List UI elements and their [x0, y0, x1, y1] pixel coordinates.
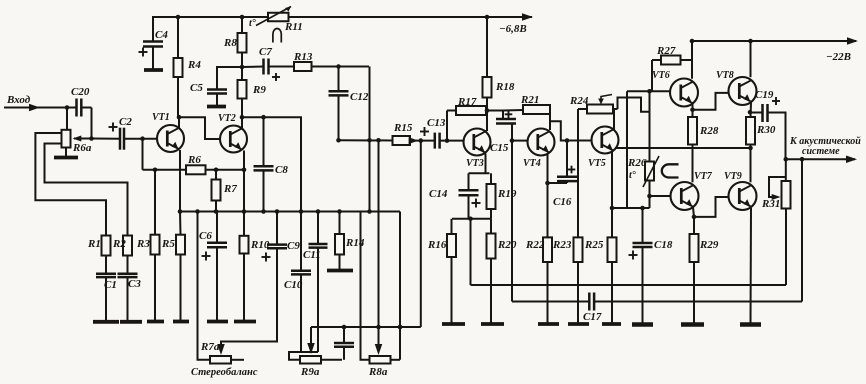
svg-text:VT8: VT8 [716, 70, 734, 81]
wire riser R13-bus [369, 67, 371, 212]
wire R21 right VT4 collector riser [549, 110, 551, 130]
wire L1 long feedback [471, 284, 787, 286]
resistor R20 [487, 234, 496, 259]
transistor VT2 [220, 126, 247, 153]
capacitor C5 [207, 88, 227, 91]
capacitor small between R9a R8a [343, 327, 345, 343]
resistor R14 [335, 234, 344, 255]
svg-text:R8а: R8а [368, 366, 388, 378]
wire VT3 emitter down [485, 154, 487, 174]
wire C19 right corner down to output node [767, 113, 785, 160]
ground under R5 [173, 320, 189, 324]
wire input line with arrow [4, 107, 67, 109]
wire base line y170 [143, 169, 187, 171]
resistor R30 [746, 117, 755, 145]
svg-text:R22: R22 [525, 239, 545, 251]
wire feedback line [311, 326, 421, 328]
wire R7a right stub [231, 359, 244, 361]
wire R22 bottom [547, 262, 549, 324]
capacitor C12 [338, 67, 340, 92]
wire VT2 emitter down [243, 151, 245, 212]
wire R3 riser [154, 170, 156, 235]
wire L2 riser from output line [801, 159, 803, 301]
ground under C6 [207, 320, 228, 324]
svg-text:R31: R31 [761, 198, 780, 210]
svg-text:С7: С7 [259, 46, 272, 58]
svg-text:VT4: VT4 [523, 158, 541, 169]
ground bar under R14 [327, 269, 353, 273]
capacitor C2 [119, 128, 122, 150]
svg-text:VT9: VT9 [724, 171, 742, 182]
resistor R9 [238, 80, 247, 99]
potentiometer R6a [62, 130, 71, 148]
capacitor C8 [263, 117, 265, 166]
svg-text:R21: R21 [520, 94, 539, 106]
svg-text:R11: R11 [284, 21, 303, 33]
svg-text:R7а: R7а [200, 341, 220, 353]
wire wiper to C2 [92, 138, 121, 140]
ground under C18 thick [632, 322, 653, 327]
wire bus to R10 [243, 212, 245, 236]
wire rail -6.8V [152, 16, 532, 18]
resistor R4 [174, 58, 183, 77]
wire emitter bracket [469, 172, 490, 174]
wire VT6 base drop x627 [626, 91, 628, 208]
transistor VT6 [670, 79, 698, 107]
ground under R6a [54, 156, 78, 160]
wire C9 bottom to R7a wiper [221, 248, 277, 352]
wire R31 bottom to L1 [785, 209, 787, 286]
resistor R24 trimmer [587, 105, 613, 114]
svg-text:R8: R8 [223, 37, 237, 49]
capacitor C15 [502, 111, 504, 120]
wire R24 right [613, 108, 618, 110]
ground bar under C4 [144, 68, 163, 72]
resistor R27 [661, 56, 681, 65]
svg-text:R27: R27 [656, 45, 676, 57]
svg-text:R9: R9 [252, 84, 266, 96]
wire R6a wiper arrow [74, 138, 92, 140]
wire VT8 base step [693, 93, 729, 110]
svg-text:R24: R24 [569, 95, 589, 107]
svg-text:VT3: VT3 [466, 158, 484, 169]
transistor VT9 [729, 182, 757, 210]
wire R8a left lead riser to bus [361, 212, 370, 360]
wire R9a right lead [321, 359, 342, 361]
svg-text:С14: С14 [429, 188, 448, 200]
wire C7 to R13 [268, 66, 294, 68]
wire R31 wiper bracket [769, 177, 786, 197]
wire C3 to ground [127, 277, 129, 321]
wire R29 bottom [693, 262, 695, 324]
wire VT2 collector riser [241, 117, 243, 128]
resistor R11 variable in rail [268, 13, 289, 22]
wire R18 bottom to VT3 collector [486, 98, 488, 132]
wire R24 left riser down to R23 [578, 108, 587, 110]
resistor R21 [523, 105, 550, 114]
wire R19 top [490, 173, 492, 184]
wire R18 top to rail [486, 17, 488, 77]
svg-text:VT6: VT6 [652, 70, 670, 81]
wire VT9 emitter down [750, 208, 753, 324]
wire R27 right [681, 59, 693, 61]
transistor VT1 [157, 125, 184, 152]
resistor R15 [393, 136, 411, 145]
wire R10 to ground [243, 254, 245, 322]
capacitor C11 [317, 212, 319, 245]
ground under R3 [147, 320, 164, 324]
svg-text:R30: R30 [756, 124, 776, 136]
wire C11 bottom to shelf [317, 248, 319, 352]
capacitor C18 [642, 208, 644, 243]
ground under R10 [234, 320, 256, 324]
svg-text:С17: С17 [583, 311, 602, 323]
ground under R16 [442, 322, 465, 326]
wire VT1 emitter down [179, 150, 181, 212]
wire R13 to drop [312, 66, 370, 68]
wire line y208 [612, 207, 650, 209]
wire C16 bottom to emitter [566, 181, 568, 183]
capacitor C14 [468, 173, 470, 190]
svg-text:R7: R7 [223, 183, 237, 195]
transistor VT4 [528, 129, 555, 156]
wire R17 left riser [446, 111, 448, 141]
wire R9 bottom to VT2 collector [241, 99, 243, 118]
svg-text:С13: С13 [427, 117, 446, 129]
ground under R25 [602, 322, 621, 326]
wire C4 bottom [152, 47, 154, 70]
wire VT4 emitter down to R22 [547, 154, 549, 237]
wire C1 to ground [105, 277, 107, 321]
svg-text:С19: С19 [755, 89, 774, 101]
svg-text:R26: R26 [627, 157, 647, 169]
capacitor C17 in line [588, 293, 591, 311]
wire lower bracket [452, 218, 491, 220]
capacitor C20 [75, 99, 78, 117]
wire VT8 collector riser to rail [750, 41, 752, 77]
wire R8a right lead [391, 359, 400, 361]
wire R20 top [490, 219, 492, 234]
resistor R25 [608, 237, 617, 262]
resistor R8 [238, 33, 247, 53]
wire C15 node to VT4 base [512, 140, 528, 142]
resistor R29 [690, 234, 699, 262]
transistor VT7 [671, 182, 699, 210]
wire R6 right to VT2 emitter node [206, 169, 245, 171]
svg-text:С16: С16 [553, 196, 572, 208]
wire C15 bottom long drop [511, 124, 513, 302]
wire C8 bottom to bus [263, 170, 265, 211]
potentiometer R8a [370, 356, 391, 364]
svg-text:R9а: R9а [300, 366, 320, 378]
wire VT4 collector branch to VT5 base [550, 121, 592, 140]
svg-text:R13: R13 [293, 51, 313, 63]
svg-text:R1: R1 [87, 238, 101, 250]
wire R28 bottom to VT7 collector [692, 145, 694, 183]
transistor VT5 [592, 127, 619, 154]
svg-text:R3: R3 [136, 238, 150, 250]
resistor R17 [456, 106, 486, 115]
wire VT6 base line [627, 90, 670, 92]
wire VT6 emitter down [692, 104, 694, 117]
wire line y148 VT5 to VT9 collector node [615, 147, 751, 149]
svg-text:R5: R5 [161, 238, 175, 250]
svg-text:С2: С2 [119, 116, 132, 128]
svg-text:С12: С12 [350, 91, 369, 103]
wire R31 top riser [785, 159, 787, 181]
capacitor C16 [566, 141, 568, 177]
resistor R19 [487, 184, 496, 209]
wire R16 top [451, 219, 453, 234]
wire drop to feedback line [420, 141, 422, 327]
svg-text:R25: R25 [584, 239, 604, 251]
resistor R5 [176, 235, 185, 255]
ground under C3 [120, 320, 142, 324]
resistor R7 [212, 180, 221, 201]
capacitor C4 [152, 17, 154, 42]
svg-text:R2: R2 [112, 238, 126, 250]
svg-text:R4: R4 [187, 59, 201, 71]
resistor R26 thermistor [645, 162, 654, 181]
wire R8 top to rail [241, 17, 243, 33]
wire R7 bottom to bus [215, 201, 217, 212]
wire to C7 [242, 66, 264, 69]
wire R6a bottom to ground [65, 148, 67, 157]
wire R27 left riser [652, 59, 661, 61]
potentiometer R9a [300, 356, 321, 364]
svg-text:С15: С15 [490, 142, 509, 154]
wire C12 bottom to signal line [338, 95, 340, 140]
wire signal line [339, 139, 393, 141]
wire R21 left [503, 109, 523, 112]
wire C18 bottom [642, 247, 644, 324]
wire C5 branch [217, 67, 242, 90]
wire VT7 emitter to R29 [693, 217, 695, 234]
wire R25 bottom [611, 262, 613, 324]
ground under R23 [568, 322, 589, 326]
wire hop over x627 [618, 98, 650, 112]
resistor R28 [688, 117, 697, 145]
wire feedback outer loop to R1 [35, 133, 106, 236]
capacitor C1 [96, 272, 116, 275]
svg-text:R14: R14 [345, 237, 365, 249]
wire C2 to VT1 base [124, 138, 157, 140]
wire VT7 emitter step to VT9 base [693, 208, 694, 217]
svg-text:С8: С8 [275, 164, 288, 176]
wire VT1 collector riser [178, 117, 180, 127]
wire feedback inner loop to R2 [45, 144, 128, 236]
svg-text:R17: R17 [457, 96, 477, 108]
wire C6 to ground [216, 247, 218, 321]
resistor R10 [240, 236, 249, 254]
transistor VT3 [464, 129, 491, 156]
wire VT1 collector to VT2 base [179, 117, 220, 139]
capacitor C13 [434, 133, 437, 149]
wire VT1 emitter to R5 [179, 212, 182, 235]
svg-text:Стереобаланс: Стереобаланс [191, 367, 258, 378]
resistor R23 [574, 237, 583, 262]
wire VT5 emitter down to R25 [611, 152, 613, 237]
resistor R13 [294, 62, 312, 71]
wire R4 bottom to collector node [177, 77, 179, 117]
wire R30 bottom to VT9 collector [750, 145, 752, 183]
svg-text:VT5: VT5 [588, 158, 606, 169]
wire bus corner down to R8a right [399, 212, 401, 360]
thermal coupling arc at R26 [662, 164, 679, 177]
wire L2 long line [512, 301, 589, 303]
wire VT6 collector riser to rail [691, 41, 693, 79]
capacitor C6 [216, 212, 218, 243]
capacitor C10 [300, 212, 302, 271]
capacitor C9 [276, 212, 278, 245]
ground under R20 [481, 322, 504, 326]
wire VT2 collector line to C8 corner [242, 117, 301, 271]
svg-text:VT1: VT1 [152, 112, 170, 123]
ground under R29 thick [681, 322, 704, 327]
wire C13 to VT3 base [440, 140, 464, 142]
wire C5 bottom [216, 94, 218, 106]
wire C14 bottom [468, 195, 470, 219]
wire R7a left lead riser to bus [198, 212, 211, 360]
wire R1 to C1 [105, 256, 107, 274]
svg-text:Вход: Вход [6, 94, 31, 106]
svg-text:−22В: −22В [826, 51, 851, 63]
wire shelf to R9a [289, 352, 318, 360]
transistor VT8 [729, 77, 757, 105]
thermal arc under R11 [273, 29, 281, 43]
wire bus to R14 [339, 212, 341, 235]
wire R15 arrow to C13 [410, 140, 435, 142]
resistor R6 [186, 165, 206, 174]
svg-text:R23: R23 [552, 239, 572, 251]
svg-text:R10: R10 [250, 239, 270, 251]
wire R5 to ground [180, 255, 182, 322]
svg-text:С20: С20 [71, 86, 90, 98]
svg-text:R19: R19 [497, 188, 517, 200]
svg-text:С18: С18 [654, 239, 673, 251]
wire VT5 collector riser [613, 109, 615, 130]
svg-text:R29: R29 [699, 239, 719, 251]
capacitor C19 [750, 112, 763, 114]
wire bus [180, 211, 400, 213]
svg-text:R6: R6 [187, 154, 201, 166]
svg-text:−6,8В: −6,8В [499, 23, 527, 35]
wire R14 bottom [339, 255, 341, 270]
svg-text:системе: системе [802, 146, 840, 157]
svg-text:t°: t° [249, 18, 256, 29]
svg-text:R18: R18 [495, 81, 515, 93]
wire R16 bottom [451, 257, 453, 323]
wire C10 bottom to shelf [300, 274, 302, 352]
resistor R16 [447, 234, 456, 257]
svg-text:R6а: R6а [72, 142, 92, 154]
wire R8 to R9 [241, 53, 243, 81]
svg-text:С5: С5 [190, 82, 203, 94]
resistor R1 [102, 236, 111, 256]
svg-text:R28: R28 [699, 125, 719, 137]
svg-text:R20: R20 [497, 239, 517, 251]
resistor R18 [483, 77, 492, 98]
svg-text:С4: С4 [155, 29, 168, 41]
svg-text:VT7: VT7 [694, 171, 713, 182]
wire output line [786, 158, 856, 160]
wire R26 top lead [649, 91, 651, 161]
svg-text:VT2: VT2 [218, 113, 236, 124]
wire rail -22V [690, 40, 856, 42]
svg-text:С6: С6 [199, 230, 212, 242]
wire VT1 base branch down [142, 139, 144, 170]
wire R9a wiper arrow [310, 327, 312, 350]
ground under C1 [93, 320, 119, 324]
svg-text:R16: R16 [427, 239, 447, 251]
wire R3 to ground [154, 255, 156, 322]
wire VT8 emitter down [750, 103, 753, 118]
resistor R22 [543, 237, 552, 262]
wire R4 top to rail [177, 17, 179, 58]
resistor R3 [151, 235, 160, 255]
resistor R2 [123, 236, 132, 256]
svg-text:С9: С9 [287, 240, 300, 252]
svg-text:t°: t° [629, 170, 636, 181]
wire input to R6a top [66, 108, 68, 131]
wire R19 bottom [490, 209, 492, 219]
ground under R22 [538, 322, 559, 326]
ground bar under C5 [207, 105, 226, 109]
wire R26 bottom to VT7 base node [649, 181, 651, 209]
resistor R31 rheostat [782, 181, 791, 209]
wire drop to R8a wiper [378, 140, 380, 351]
svg-text:R15: R15 [393, 122, 413, 134]
wire L1 riser [470, 219, 472, 285]
wire R20 bottom [490, 259, 492, 324]
wire R7 top [215, 170, 217, 180]
capacitor C7 [262, 59, 265, 75]
svg-text:С3: С3 [128, 278, 141, 290]
wire VT7 base line [650, 195, 671, 197]
potentiometer R7a [210, 356, 231, 364]
wire C20 right down to R6a wiper [91, 108, 93, 139]
wire R2 to C3 [127, 256, 129, 274]
capacitor C3 [118, 272, 138, 275]
wire R17 right to C15 node [486, 110, 503, 112]
wire R23 bottom [577, 262, 579, 324]
ground under VT9 thick [740, 322, 761, 327]
